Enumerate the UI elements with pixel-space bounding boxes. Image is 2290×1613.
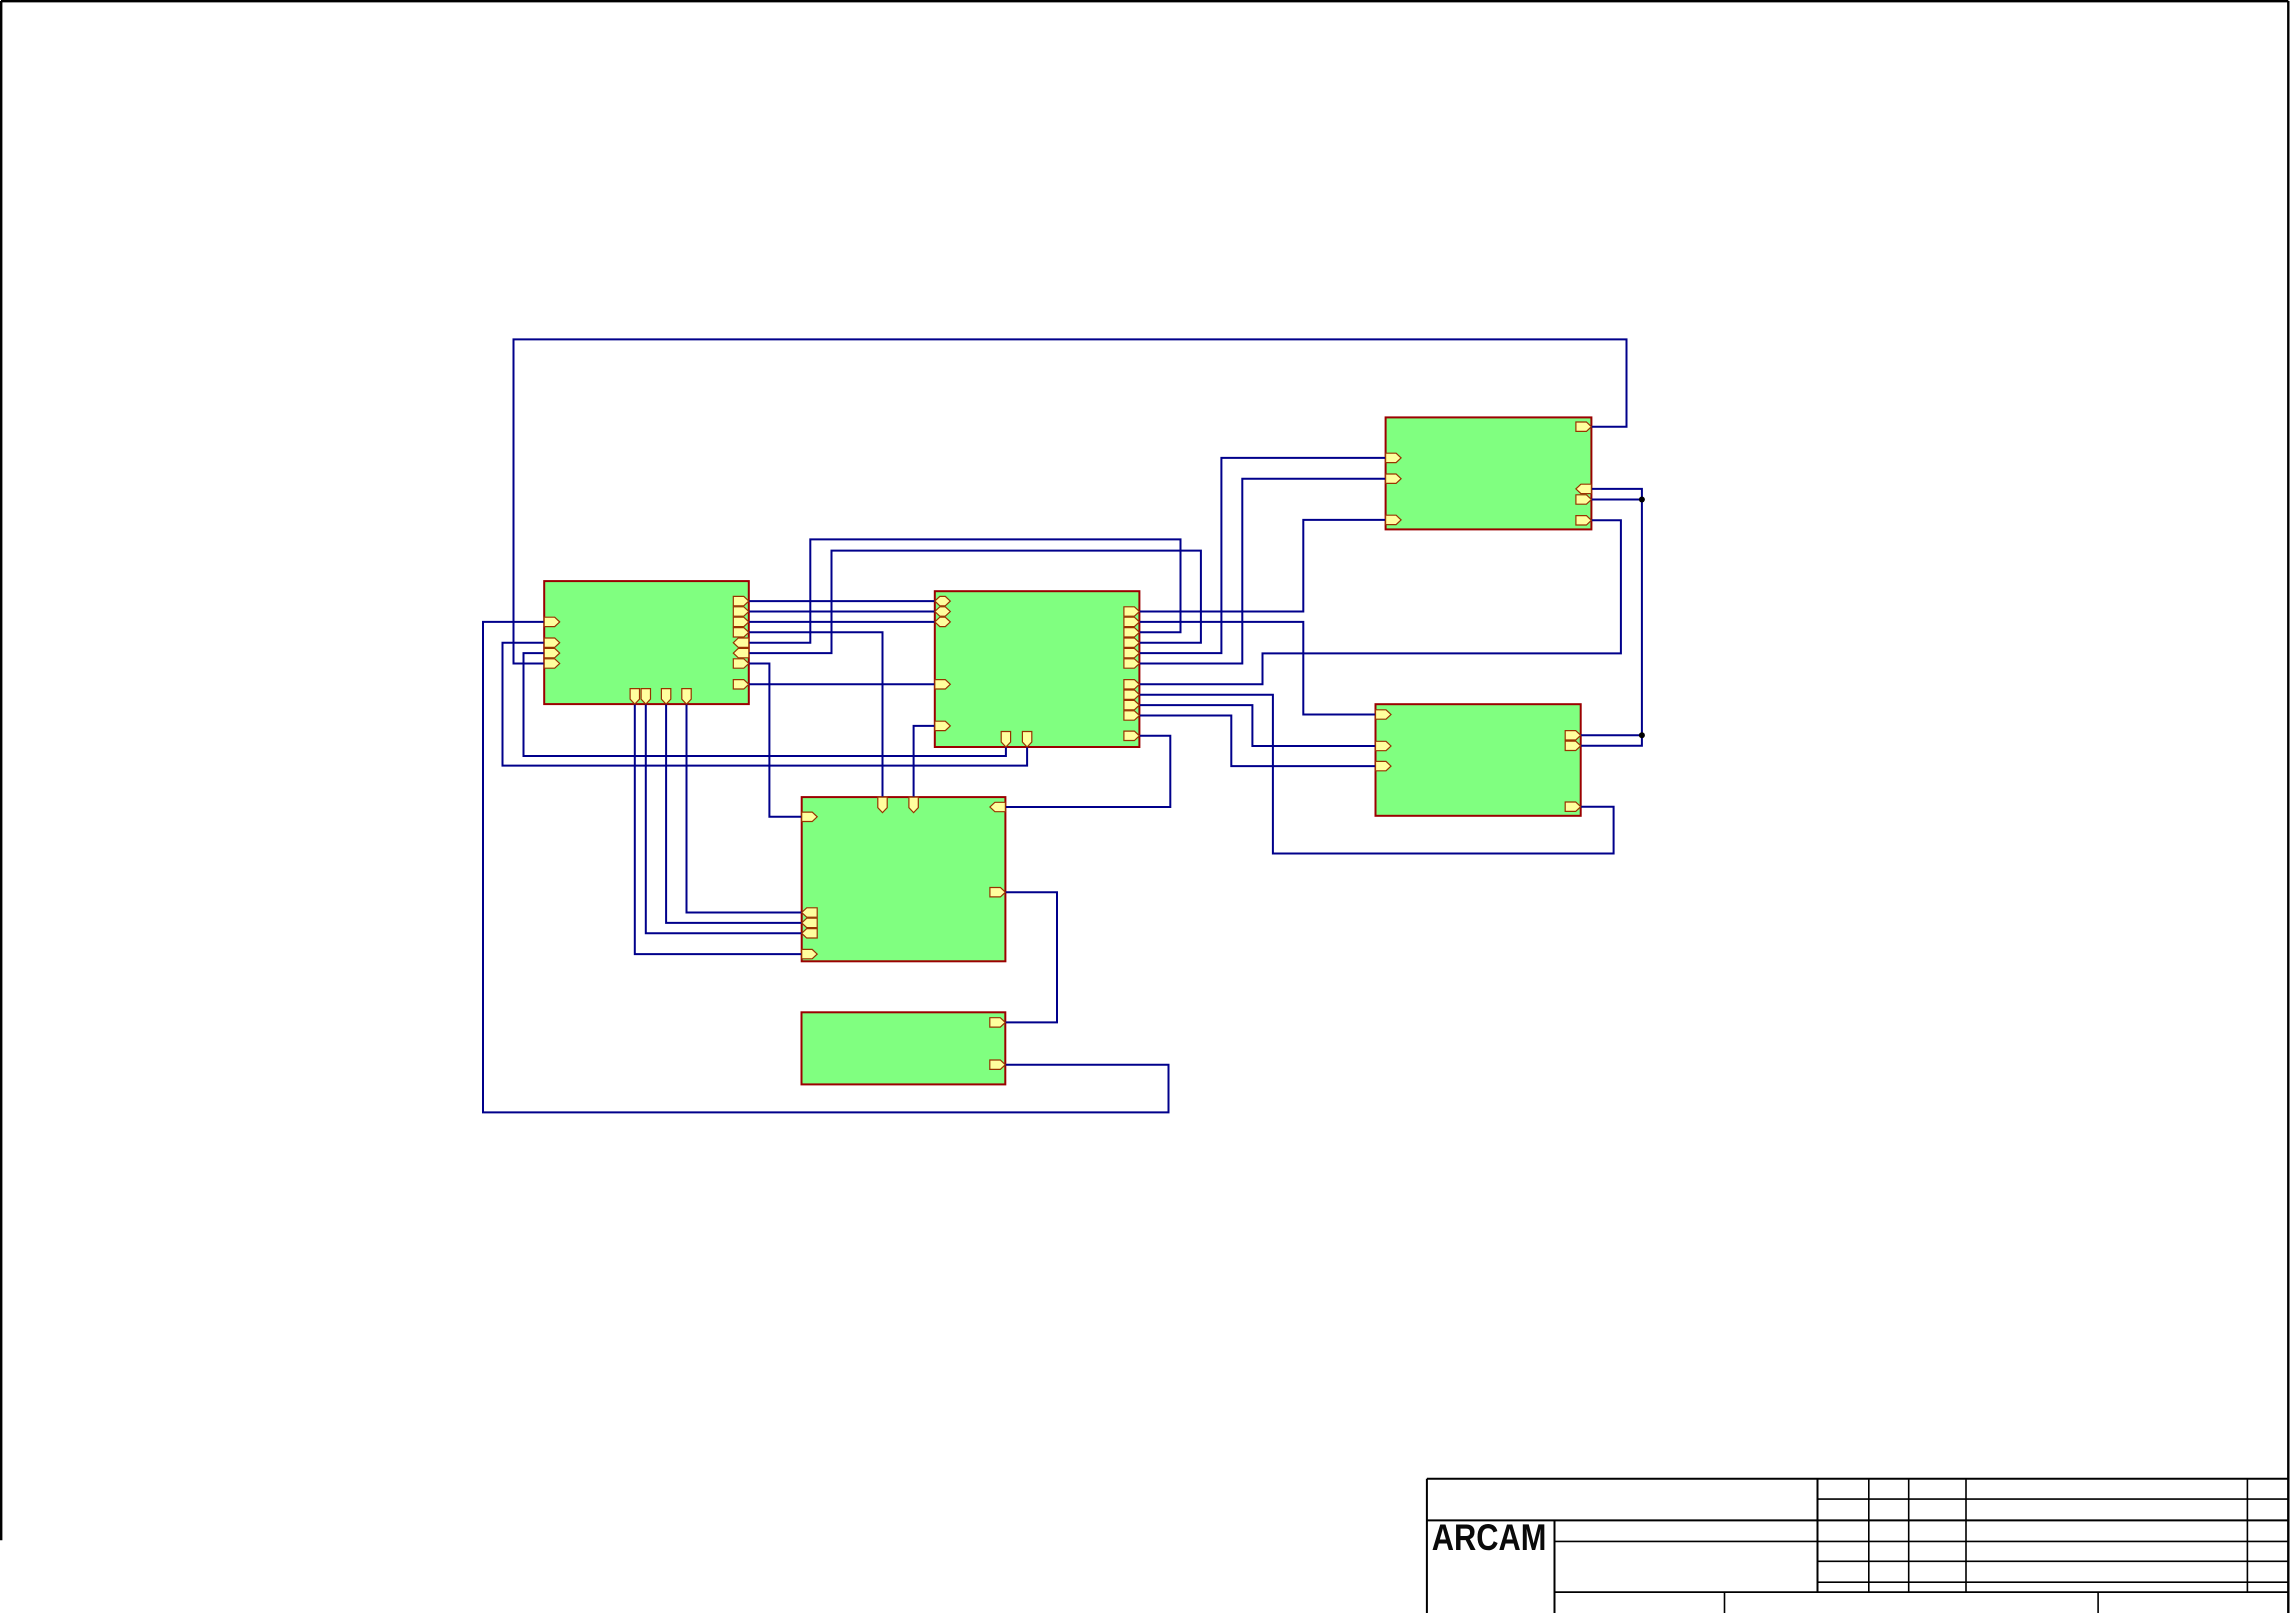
title block left border [1426,1479,1428,1613]
sheet symbol S5 (bottom centre) [802,797,1006,961]
title block bottom strip top line [1555,1591,2289,1593]
title block bottom strip divider 2 [2097,1592,2099,1613]
pin S3 right 10 [1124,711,1140,720]
page border top edge [1,0,2288,2]
pin S5 left a [802,908,818,917]
title block right-section row 1 [1818,1498,2289,1500]
pin S3 right 3 [1124,628,1140,637]
pin S5 left d [802,949,818,958]
pin S1 left 1 [1386,453,1402,462]
wire net N27: S3 right pin 10 to S4 left pin 3 [1139,716,1375,767]
pin S2 bottom 2 [641,689,650,705]
pin S2 bottom 3 [661,689,670,705]
pin S2 right 7 [733,659,749,668]
pin S3 left 1 bidir [935,596,951,605]
wire net N24: S1 right pin 3 to S3 right pin 7 [1139,520,1621,684]
pin S3 left 2 bidir [935,607,951,616]
pin S3 left 3 bidir [935,617,951,626]
sheet symbol S4 (middle right) [1376,704,1581,816]
wire net N19: S5 right pin to S6 right pin 1 [1005,892,1057,1022]
junction dot at net N28 / S1 right pin 2 [1639,497,1645,503]
title block narrow right column divider [2246,1479,2248,1592]
wire net N28 branch: S1 right pin 2 to spine [1591,499,1642,501]
pin S1 right input [1576,484,1592,493]
title block top border [1427,1478,2288,1480]
page border left edge [0,1,2,1540]
pin S3 right 7 [1124,680,1140,689]
wire net N14: S2 bottom pin 2 to S5 left pin c [646,704,802,933]
wire net N16: S2 bottom pin 4 to S5 left pin a [687,704,802,912]
wire net N10: S2 right pin 6 to S3 right pin 4 (over-the-top) [749,551,1201,654]
title block right-section row 4 [1818,1581,2289,1583]
pin S5 left c [802,929,818,938]
pin S3 right 9 [1124,700,1140,709]
pin S2 right 2 [733,607,749,616]
pin S4 left 3 [1376,761,1392,770]
pin S5 left b [802,918,818,927]
pin S2 right 4 [733,628,749,637]
pin S3 right 1 [1124,607,1140,616]
pin S2 left 3 [544,648,560,657]
title block right-section column 3 [1965,1479,1967,1592]
pin S2 left 2 [544,638,560,647]
pin S5 right top input [990,802,1006,811]
wire net N15: S2 bottom pin 3 to S5 left pin b [666,704,802,923]
wire net N4: S2 left pin 3 to S3 bottom pin 1 [524,653,1006,756]
title block right-section row 3 [1818,1560,2289,1562]
pin S2 bottom 4 [682,689,691,705]
wire net N9: S2 right pin 5 to S3 right pin 3 (over-the-top) [749,539,1181,642]
pin S3 right 4 [1124,638,1140,647]
pin S2 right 1 [733,596,749,605]
pin S2 right 5 input [733,638,749,647]
wire net N18: S3 right pin 11 to S5 right top pin [1005,736,1170,807]
title block middle row line [1555,1540,2289,1542]
pin S5 right middle [990,888,1006,897]
junction dot at net N28 / S4 right pin 1 [1639,732,1645,738]
pin S3 right 11 [1124,731,1140,740]
sheet symbol S1 (top right) [1386,417,1592,529]
pin S2 bottom 1 [630,689,639,705]
pin S1 left 2 [1386,474,1402,483]
pin S6 right 2 [990,1060,1006,1069]
wire net N17: S5 top pin 2 to S3 left pin 5 [914,726,935,797]
title block logo row top line [1427,1519,2288,1521]
pin S1 right 3 [1576,516,1592,525]
wire net N12: S2 right pin 8 to S3 left pin 4 [749,683,935,685]
wire net N23: S3 right pin 6 to S1 left pin 2 [1139,479,1385,664]
pin S5 left top [802,812,818,821]
pin S3 right 2 [1124,617,1140,626]
pin S2 right 3 [733,617,749,626]
wire net N2: S2 left pin 1 to S6 right pin 2 (bottom loop) [483,622,1169,1113]
pin S3 right 6 [1124,659,1140,668]
pin S4 left 1 [1376,710,1392,719]
wire net N28 branch: S4 right pin 1 to spine [1581,734,1642,736]
pin S5 top 1 [878,797,887,813]
pin S2 left 4 [544,659,560,668]
wire net N22: S3 right pin 5 to S1 left pin 1 [1139,458,1385,653]
wire net N1: S1 top-right pin to S2 left pin 4 (top loop) [514,339,1627,663]
sheet symbol S2 (middle left) [544,581,749,704]
title block right-section column 2 [1908,1479,1910,1592]
pin S2 right 8 [733,680,749,689]
wire net N26: S3 right pin 9 to S4 left pin 2 [1139,705,1375,746]
pin S3 right 5 [1124,648,1140,657]
pin S4 right 2 [1565,741,1581,750]
pin S3 bottom 2 [1022,732,1031,748]
wire net N8: S2 right pin 4 to S5 top pin 1 [749,632,883,797]
title block divider right of logo cell [1554,1520,1556,1613]
title block bottom strip divider 1 [1724,1592,1726,1613]
pin S2 right 6 input [733,648,749,657]
pin S1 left 3 [1386,515,1402,524]
page border right edge [2287,1,2289,1613]
wire net N11: S2 right pin 7 to S5 left top pin [749,664,802,817]
wire net N7: S2 right pin 3 to S3 left pin 3 [749,621,935,623]
wire net N5: S2 right pin 1 to S3 left pin 1 [749,600,935,602]
pin S3 left 4 [935,680,951,689]
pin S3 bottom 1 [1001,732,1010,748]
pin S4 left 2 [1376,741,1392,750]
pin S1 right 2 [1576,495,1592,504]
title block right-section column 1 [1868,1479,1870,1592]
pin S2 left 1 [544,617,560,626]
wire net N21: S3 right pin 2 to S4 left pin 1 [1139,622,1375,715]
wire net N20: S3 right pin 1 to S1 left pin 3 [1139,520,1385,612]
pin S4 bottom-right [1565,802,1581,811]
pin S5 top 2 [909,797,918,813]
wire net N28: S1 right input pin to S4 right pin 2 (bus spine) [1581,489,1642,746]
sheet symbol S6 (bottom small) [802,1012,1006,1084]
pin S3 right 8 [1124,690,1140,699]
sheet symbol S3 (centre) [935,591,1140,747]
pin S6 right 1 [990,1018,1006,1027]
wire net N25: S3 right pin 8 to S4 bottom-right pin (under loop) [1139,695,1613,854]
pin S4 right 1 [1565,731,1581,740]
wire net N6: S2 right pin 2 to S3 left pin 2 [749,611,935,613]
svg-text:ARCAM: ARCAM [1432,1517,1547,1558]
pin S3 left 5 [935,721,951,730]
wire net N13: S2 bottom pin 1 to S5 left pin d [635,704,802,954]
wire net N3: S2 left pin 2 to S3 bottom pin 2 [503,643,1028,766]
pin S1 top-right output [1576,422,1592,431]
title block right-section left divider [1817,1479,1819,1592]
